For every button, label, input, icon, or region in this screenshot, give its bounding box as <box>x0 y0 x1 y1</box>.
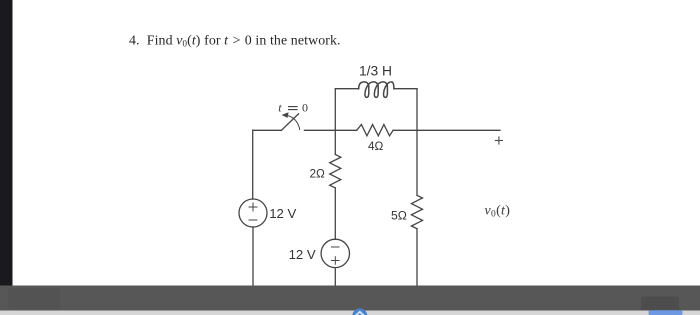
svg-text:12 V: 12 V <box>289 247 316 262</box>
output plus sign <box>495 136 503 144</box>
label 5 ohm <box>391 208 407 222</box>
wire inductor left lead <box>335 88 358 90</box>
source V2 minus sign <box>331 246 340 248</box>
wire node B to open terminal <box>393 129 500 131</box>
inductor L1 coil <box>359 82 394 98</box>
source V2 plus sign <box>331 256 340 265</box>
svg-text:12 V: 12 V <box>269 206 296 221</box>
svg-text:v0(t): v0(t) <box>485 204 511 220</box>
toolbar darker button right <box>641 297 679 311</box>
blue button bottom right <box>649 310 683 315</box>
problem title text <box>129 33 341 48</box>
wire source V2 to bottom <box>334 268 336 286</box>
label 1/3 H <box>359 63 392 78</box>
resistor 2ohm zigzag <box>330 155 341 188</box>
wire node B down to resistor 5ohm <box>416 130 418 195</box>
svg-text:2Ω: 2Ω <box>310 167 326 181</box>
left sidebar <box>0 0 13 286</box>
source V2 circle <box>321 239 349 267</box>
source V1 plus sign <box>249 203 258 212</box>
wire 5ohm to bottom <box>416 229 418 286</box>
switch arc with arrow <box>282 112 300 129</box>
wire 2ohm to source V2 <box>334 188 336 239</box>
wire node A down to resistor 2ohm <box>334 130 336 154</box>
label t=0 <box>278 101 308 115</box>
wire node A up to inductor branch <box>334 89 336 131</box>
wire left vertical (source V1 top lead) <box>252 130 254 199</box>
label 4 ohm <box>368 139 384 153</box>
wire source V1 to bottom <box>252 227 254 286</box>
wire inductor branch down to node B <box>416 89 418 131</box>
label 12 V source V2 <box>289 247 316 262</box>
svg-text:1/3 H: 1/3 H <box>359 63 392 78</box>
label 2 ohm <box>310 167 326 181</box>
resistor 4ohm zigzag <box>357 125 393 136</box>
svg-text:4. Find v0(t) for t > 0 in th: 4. Find v0(t) for t > 0 in the network. <box>129 33 341 48</box>
blue scroll bubble center <box>352 309 367 315</box>
switch blade <box>281 114 298 131</box>
source V1 circle <box>239 199 267 227</box>
resistor 5ohm zigzag <box>411 195 422 228</box>
label v0(t) <box>485 204 511 220</box>
svg-text:4Ω: 4Ω <box>368 139 384 153</box>
toolbar darker button left <box>8 288 60 309</box>
label 12 V source V1 <box>269 206 296 221</box>
source V1 minus sign <box>249 219 258 221</box>
svg-text:5Ω: 5Ω <box>391 208 407 222</box>
wire inductor right lead <box>394 88 417 90</box>
bottom toolbar <box>0 286 700 311</box>
wire switch right to node A <box>304 129 356 131</box>
wire left top horizontal (switch left lead) <box>253 129 282 131</box>
bottom light strip <box>0 311 700 315</box>
